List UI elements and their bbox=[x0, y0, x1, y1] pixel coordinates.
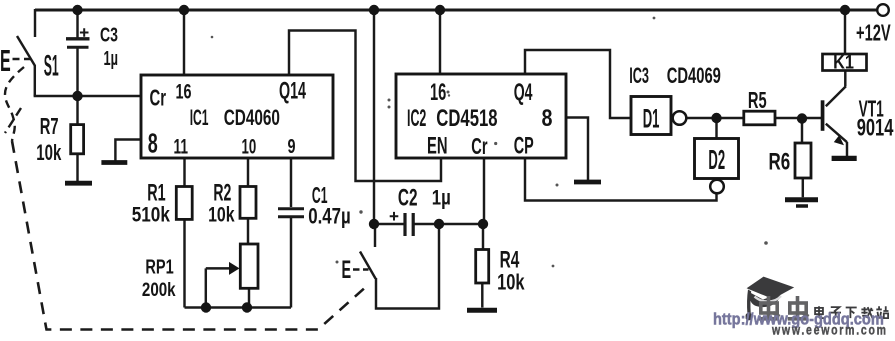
svg-text:Q14: Q14 bbox=[279, 78, 306, 105]
svg-text:10k: 10k bbox=[497, 271, 525, 295]
svg-text:9: 9 bbox=[288, 135, 296, 158]
svg-text:CD4518: CD4518 bbox=[436, 105, 497, 132]
svg-text:CP: CP bbox=[514, 133, 534, 160]
svg-text:1µ: 1µ bbox=[432, 187, 451, 210]
svg-text:S1: S1 bbox=[44, 48, 59, 82]
svg-text:D2: D2 bbox=[708, 143, 725, 175]
svg-text:E: E bbox=[0, 45, 11, 79]
svg-text:EN: EN bbox=[427, 133, 447, 159]
svg-text:Q4: Q4 bbox=[514, 79, 533, 106]
svg-text:8: 8 bbox=[542, 104, 553, 131]
svg-text:www.eeworm.com: www.eeworm.com bbox=[771, 322, 888, 336]
svg-text:K1: K1 bbox=[833, 51, 854, 73]
svg-text:IC1: IC1 bbox=[190, 105, 209, 130]
svg-text:R5: R5 bbox=[748, 89, 767, 114]
svg-text:IC2: IC2 bbox=[407, 105, 426, 131]
svg-text:R4: R4 bbox=[500, 247, 520, 273]
svg-text:10k: 10k bbox=[36, 140, 61, 165]
svg-text:C2: C2 bbox=[398, 185, 418, 211]
svg-text:16: 16 bbox=[430, 79, 446, 106]
svg-text:C3: C3 bbox=[100, 23, 118, 46]
svg-text:11: 11 bbox=[174, 135, 189, 159]
svg-text:R6: R6 bbox=[769, 149, 791, 175]
svg-text:16: 16 bbox=[176, 80, 192, 103]
svg-text:9014: 9014 bbox=[857, 116, 894, 142]
svg-text:10k: 10k bbox=[208, 203, 235, 227]
svg-text:10: 10 bbox=[242, 134, 257, 158]
svg-text:CD4069: CD4069 bbox=[667, 64, 721, 89]
svg-text:CD4060: CD4060 bbox=[224, 107, 280, 131]
svg-text:Cr: Cr bbox=[471, 134, 488, 160]
svg-text:510k: 510k bbox=[132, 203, 170, 227]
svg-text:R7: R7 bbox=[40, 114, 59, 140]
svg-text:Cr: Cr bbox=[150, 85, 167, 111]
svg-text:IC3: IC3 bbox=[629, 63, 649, 87]
svg-text:8: 8 bbox=[148, 128, 158, 159]
svg-text:RP1: RP1 bbox=[145, 255, 174, 278]
svg-text:+12V: +12V bbox=[856, 20, 891, 46]
svg-text:0.47µ: 0.47µ bbox=[308, 204, 350, 229]
svg-text:E: E bbox=[342, 256, 352, 284]
svg-text:D1: D1 bbox=[643, 105, 660, 134]
svg-text:1µ: 1µ bbox=[104, 46, 119, 70]
svg-text:200k: 200k bbox=[142, 278, 176, 300]
